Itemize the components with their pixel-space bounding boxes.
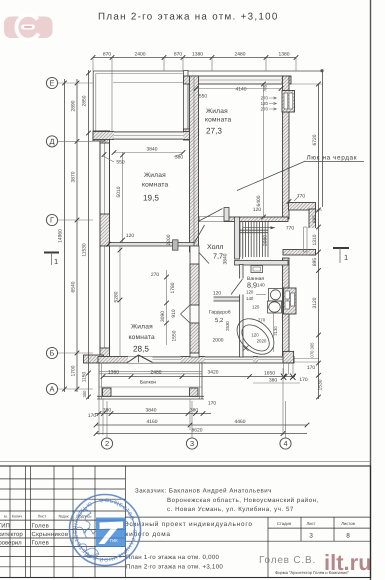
sheet right border <box>370 0 372 580</box>
svg-text:380: 380 <box>269 378 277 384</box>
window bottom (bath) <box>258 357 283 364</box>
svg-text:Люк на чердак: Люк на чердак <box>307 155 358 162</box>
svg-text:Жилая: Жилая <box>131 324 153 331</box>
svg-text:Гардероб: Гардероб <box>209 310 231 316</box>
svg-text:2020: 2020 <box>257 339 267 344</box>
svg-text:2400: 2400 <box>135 52 146 58</box>
svg-text:Голев: Голев <box>32 523 50 530</box>
svg-text:7,7: 7,7 <box>213 252 223 261</box>
bottom-right corner pier <box>283 351 294 363</box>
svg-text:Балкон: Балкон <box>140 380 156 386</box>
svg-text:Голев С.В.: Голев С.В. <box>259 555 316 566</box>
svg-text:План 1-го этажа на отм. 0,000: План 1-го этажа на отм. 0,000 <box>126 554 220 561</box>
post on partition <box>173 240 179 250</box>
svg-text:2080: 2080 <box>263 235 269 246</box>
wall E: hall/stairs <box>235 217 240 259</box>
svg-text:5,2: 5,2 <box>215 317 224 324</box>
svg-text:27,3: 27,3 <box>206 127 222 136</box>
axis E extension <box>113 82 183 84</box>
svg-text:8620: 8620 <box>192 428 203 434</box>
axis circles bottom <box>101 438 112 449</box>
svg-text:170: 170 <box>299 377 307 383</box>
svg-text:ГИК: ГИК <box>110 538 118 543</box>
svg-text:3120: 3120 <box>312 297 318 308</box>
stamp logo square <box>96 518 126 548</box>
wall: right exterior of 27,3 <box>283 76 290 219</box>
svg-text:8,9: 8,9 <box>247 281 257 290</box>
right dimension chain <box>291 83 322 85</box>
door leaf hall-27,3 <box>199 209 223 222</box>
svg-text:140: 140 <box>257 283 265 288</box>
svg-text:1: 1 <box>344 253 348 262</box>
svg-text:170: 170 <box>208 401 216 407</box>
svg-text:380: 380 <box>175 155 183 161</box>
wall A: hall top <box>199 217 289 222</box>
svg-text:11530: 11530 <box>82 243 88 257</box>
left dimension chains <box>64 79 66 392</box>
svg-text:550: 550 <box>116 160 124 166</box>
svg-text:170: 170 <box>88 413 96 419</box>
svg-text:Жилая: Жилая <box>144 172 166 179</box>
svg-text:1550: 1550 <box>172 330 178 341</box>
svg-text:28,5: 28,5 <box>133 345 149 354</box>
svg-text:3870: 3870 <box>71 171 77 182</box>
corner block terrace/19,5 <box>184 129 199 140</box>
balcony dimension chain <box>103 376 295 378</box>
svg-text:Заказчик: Бакланов Андрей Анат: Заказчик: Бакланов Андрей Анатольевич <box>135 488 272 495</box>
pilaster bottom-left <box>84 355 104 363</box>
svg-text:Лист: Лист <box>38 515 47 519</box>
svg-text:2130: 2130 <box>273 326 278 336</box>
logo top-left <box>4 15 53 40</box>
wall F: stairs/bath <box>235 261 289 266</box>
chimney block bottom <box>284 288 297 314</box>
svg-text:1380: 1380 <box>192 52 203 58</box>
svg-text:1380: 1380 <box>279 52 290 58</box>
svg-text:комната: комната <box>142 182 168 189</box>
svg-text:Г: Г <box>50 216 54 225</box>
svg-text:1530: 1530 <box>318 379 324 390</box>
svg-text:170: 170 <box>307 365 315 371</box>
svg-text:8: 8 <box>346 533 350 540</box>
svg-text:120: 120 <box>261 101 269 106</box>
svg-text:120: 120 <box>252 305 260 310</box>
balcony <box>98 363 100 399</box>
bottom-right step detail <box>283 363 285 374</box>
svg-text:Воронежская область, Новоусман: Воронежская область, Новоусманский район… <box>167 497 319 504</box>
svg-text:3420: 3420 <box>208 370 219 376</box>
svg-text:6720: 6720 <box>312 134 318 145</box>
svg-text:Голев: Голев <box>32 540 50 547</box>
svg-text:120: 120 <box>251 333 259 338</box>
svg-text:270: 270 <box>258 318 266 323</box>
svg-text:380: 380 <box>190 408 198 414</box>
svg-text:270: 270 <box>151 272 159 278</box>
french door opening <box>128 357 153 364</box>
svg-text:Скрынников: Скрынников <box>32 531 69 538</box>
door leaves near hall <box>195 225 205 243</box>
svg-text:2850: 2850 <box>82 95 88 106</box>
svg-text:Стадия: Стадия <box>277 521 291 526</box>
wall stub right of door <box>224 208 229 222</box>
svg-text:305: 305 <box>310 342 315 350</box>
svg-text:Колич.: Колич. <box>12 515 24 519</box>
attic hatch leader <box>237 161 306 191</box>
svg-text:5280: 5280 <box>114 291 120 302</box>
round stamp <box>0 0 141 566</box>
svg-text:6540: 6540 <box>71 281 77 292</box>
svg-text:4: 4 <box>283 439 287 448</box>
wall: top of room 19,5 <box>93 132 199 140</box>
svg-text:3840: 3840 <box>147 147 158 153</box>
svg-text:870: 870 <box>103 52 111 58</box>
svg-text:3090: 3090 <box>160 311 166 322</box>
svg-text:комната: комната <box>129 334 155 341</box>
wall: left exterior (hollow with core line) <box>100 131 110 363</box>
svg-text:м.: м. <box>4 515 8 519</box>
terrace outline <box>92 71 94 133</box>
wall: top of room 27,3 <box>184 76 292 84</box>
svg-text:1: 1 <box>54 257 58 266</box>
svg-text:120: 120 <box>126 233 134 239</box>
frame line above title block <box>0 460 371 462</box>
svg-text:Архитектор: Архитектор <box>0 531 23 538</box>
left wall hatched piers <box>100 131 110 143</box>
svg-text:120: 120 <box>246 290 254 295</box>
svg-text:19,5: 19,5 <box>143 194 159 203</box>
double door leaves to 28,5 <box>181 305 191 314</box>
svg-text:1310: 1310 <box>312 234 318 245</box>
wall: bottom exterior <box>98 357 294 364</box>
svg-text:380: 380 <box>103 408 111 414</box>
svg-text:070: 070 <box>310 350 315 358</box>
svg-text:А: А <box>50 385 55 394</box>
svg-text:300: 300 <box>82 390 87 398</box>
section mark T1 left <box>44 252 59 254</box>
svg-text:Лист: Лист <box>306 521 315 526</box>
svg-text:270: 270 <box>261 96 269 101</box>
bathtub <box>230 312 281 362</box>
svg-text:120: 120 <box>253 207 261 213</box>
interior dims 19,5 <box>122 152 124 242</box>
section mark T1 <box>333 247 349 249</box>
bottom dimension chains <box>95 413 211 415</box>
svg-text:комната: комната <box>205 117 231 124</box>
window top room 27,3 <box>196 76 281 84</box>
svg-text:140: 140 <box>246 296 254 301</box>
svg-text:1700: 1700 <box>71 365 77 376</box>
svg-text:2480: 2480 <box>235 52 246 58</box>
svg-text:3: 3 <box>309 533 313 540</box>
svg-text:Жилая: Жилая <box>206 108 228 115</box>
svg-text:2: 2 <box>105 439 109 448</box>
svg-text:Е: Е <box>50 79 55 88</box>
interior dims 28,5 <box>119 246 121 357</box>
svg-text:2000: 2000 <box>213 338 224 344</box>
svg-text:с. Новая Усмань, ул. Кулибина,: с. Новая Усмань, ул. Кулибина, уч. 57 <box>167 506 294 513</box>
wall: between 19,5 and 27,3 <box>190 76 199 252</box>
svg-text:2530: 2530 <box>225 321 230 331</box>
svg-text:1150: 1150 <box>82 371 88 382</box>
svg-text:1650: 1650 <box>264 371 275 377</box>
tick extension down <box>111 71 113 131</box>
roof eaves outline <box>93 70 323 72</box>
wall: right exterior of bathroom <box>283 258 290 363</box>
svg-text:4460: 4460 <box>235 419 246 425</box>
toilet <box>268 301 282 313</box>
svg-text:870: 870 <box>174 52 182 58</box>
svg-text:Д: Д <box>49 137 54 146</box>
svg-text:4160: 4160 <box>147 419 158 425</box>
svg-text:1780: 1780 <box>170 282 176 293</box>
balcony door+window in bottom wall <box>153 357 181 364</box>
svg-text:895: 895 <box>312 258 318 266</box>
svg-text:3840: 3840 <box>223 253 229 264</box>
pilaster top-left <box>93 131 105 141</box>
wall G: corridor/bath <box>240 265 244 358</box>
svg-text:4140: 4140 <box>236 87 247 93</box>
svg-text:6400: 6400 <box>256 195 262 206</box>
svg-text:План 2-го этажа на отм. +3,100: План 2-го этажа на отм. +3,100 <box>98 11 279 22</box>
stair bay walls <box>289 203 316 211</box>
svg-text:2890: 2890 <box>71 100 77 111</box>
svg-text:Холл: Холл <box>207 244 224 251</box>
wall 28,5 / wardrobe with openings <box>190 246 199 357</box>
svg-text:ilt.ru: ilt.ru <box>324 550 372 575</box>
svg-text:14960: 14960 <box>58 229 64 243</box>
svg-text:120: 120 <box>213 291 221 297</box>
svg-text:550: 550 <box>199 94 207 100</box>
staircase <box>239 222 241 258</box>
window bottom (wardrobe) <box>205 357 253 364</box>
svg-text:Б: Б <box>50 349 55 358</box>
svg-text:Эскизный проект индивидуальног: Эскизный проект индивидуального <box>124 521 253 528</box>
svg-text:Проверил: Проверил <box>0 540 22 547</box>
terrace right parapet <box>184 71 189 132</box>
svg-text:Листов: Листов <box>341 521 355 526</box>
axis circles left <box>46 77 57 88</box>
svg-text:3840: 3840 <box>146 408 157 414</box>
svg-text:3: 3 <box>190 439 194 448</box>
partition dims <box>166 270 168 345</box>
svg-text:910: 910 <box>171 309 177 317</box>
svg-text:895: 895 <box>312 215 318 223</box>
window top room 19,5 <box>114 132 183 140</box>
top dimension chain <box>93 57 296 59</box>
svg-text:1360: 1360 <box>108 370 119 376</box>
svg-text:2480: 2480 <box>151 370 162 376</box>
svg-text:План 2-го этажа на отм. +3,100: План 2-го этажа на отм. +3,100 <box>126 564 223 571</box>
washbasin <box>251 266 263 273</box>
washing machine <box>269 289 283 302</box>
wall H: corridor/wardrobe <box>199 297 240 301</box>
bath door leaf <box>231 279 243 295</box>
svg-text:2200: 2200 <box>166 234 172 245</box>
svg-text:270: 270 <box>261 107 269 112</box>
svg-text:5010: 5010 <box>116 186 122 197</box>
title block <box>0 466 371 578</box>
chimney block top <box>282 91 295 113</box>
svg-text:№док: №док <box>58 515 68 519</box>
svg-text:ГИП: ГИП <box>0 523 10 530</box>
svg-text:770: 770 <box>286 226 294 232</box>
wall C: partition 19,5 / 28,5 <box>109 243 194 247</box>
